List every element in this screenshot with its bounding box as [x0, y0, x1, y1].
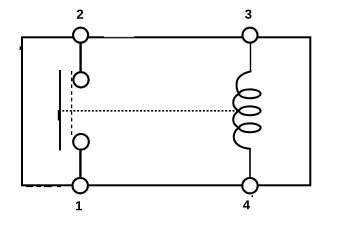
- coil loop ellipse 2: [239, 106, 260, 115]
- pin label 4: [243, 200, 250, 209]
- relay contact upper circle: [73, 72, 88, 87]
- coil loop ellipse 3: [239, 123, 260, 132]
- armature bar: [59, 70, 61, 151]
- coil L1 winding stroke: [233, 72, 250, 149]
- terminal 1 circle: [73, 178, 88, 193]
- wire: vertical from lower contact down to terminal 1: [79, 149, 81, 179]
- pin label 3: [245, 10, 251, 19]
- dotted linkage line (horizontal to coil): [62, 110, 237, 112]
- coil loop ellipse 1: [239, 89, 260, 98]
- wire: outer rectangle border: [22, 37, 310, 185]
- wire: stub on left border (scan artifact): [20, 47, 22, 50]
- wire: vertical from terminal 3 down to coil top: [250, 42, 252, 72]
- terminal 2 circle: [73, 28, 88, 43]
- armature bar thickening (scan artifact): [58, 110, 60, 121]
- relay contact lower circle: [73, 134, 89, 150]
- wire: ragged bumps under bottom border (scan artifact): [26, 186, 61, 188]
- dashed linkage line (vertical): [71, 71, 73, 136]
- terminal 3 circle: [243, 28, 258, 43]
- terminal 4 circle: [242, 178, 257, 193]
- speck above label 4 (scan artifact): [252, 195, 253, 197]
- pin label 1: [76, 201, 82, 210]
- wire: vertical from terminal 2 down to upper contact: [79, 42, 81, 73]
- wire: thin worn segment of top border (scan artifact): [104, 35, 134, 38]
- pin label 2: [77, 10, 83, 19]
- wire: vertical from coil bottom down to terminal 4: [249, 149, 251, 180]
